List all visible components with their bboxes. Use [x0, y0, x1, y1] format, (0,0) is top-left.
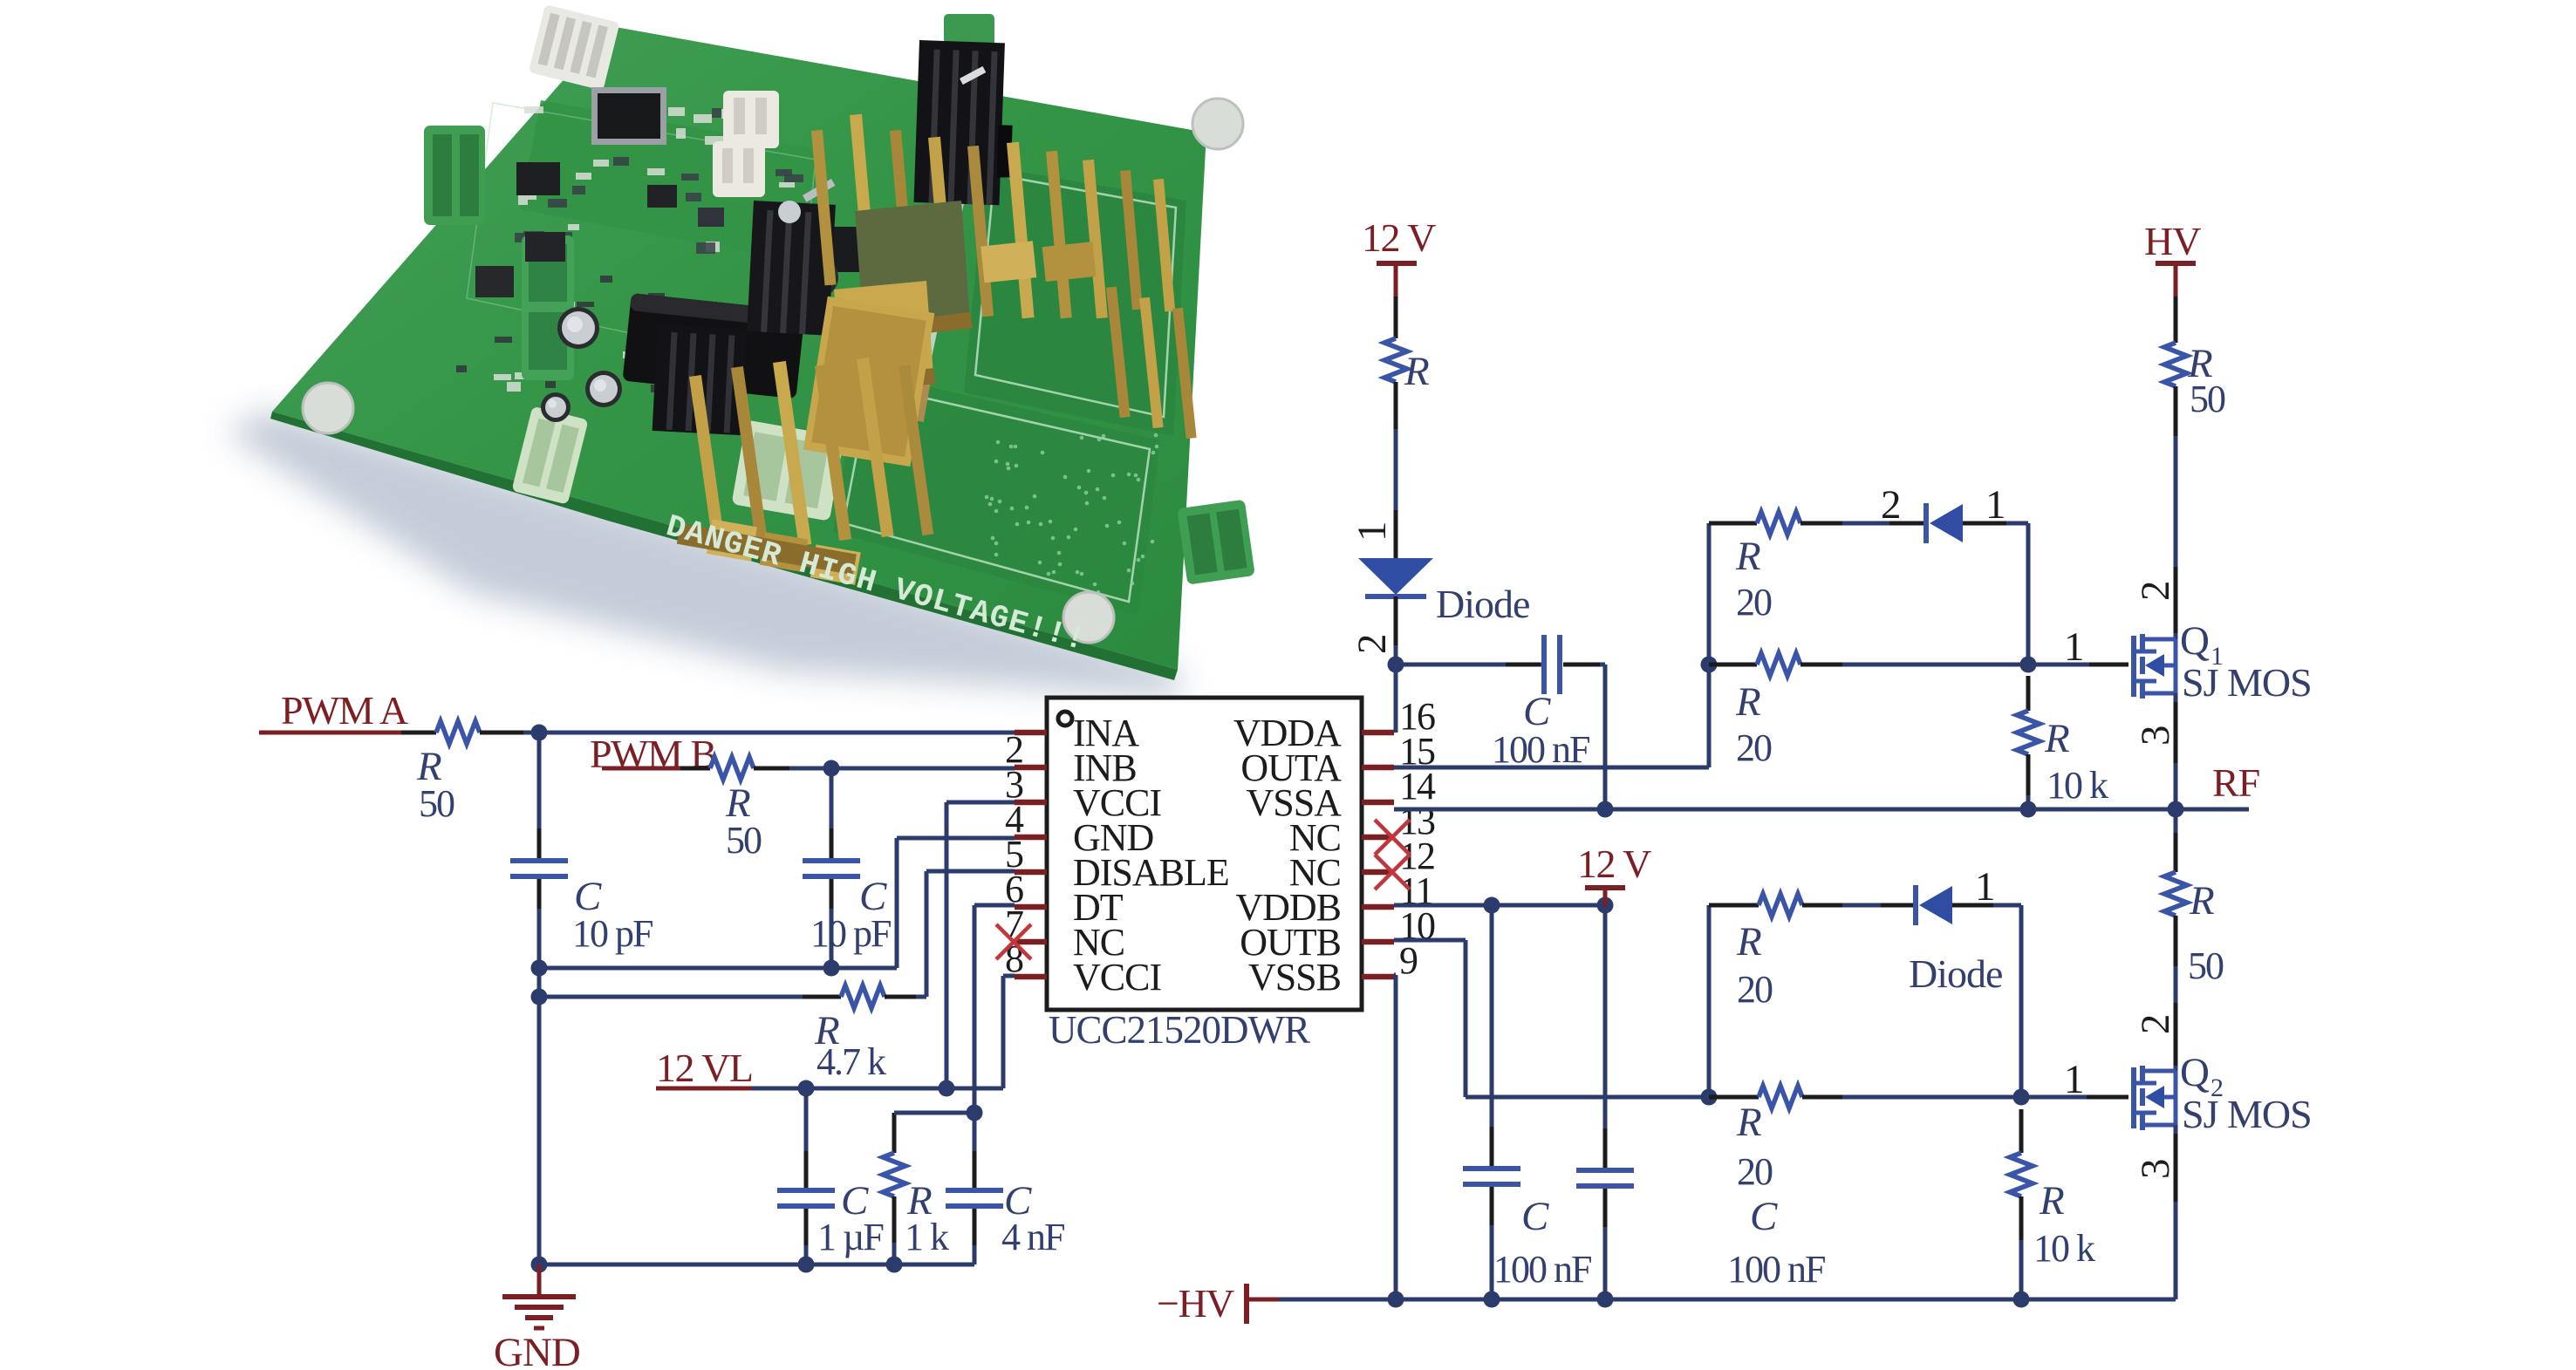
pin 13 stub (NC)	[1362, 835, 1394, 841]
wire R4.7k rail	[539, 995, 803, 999]
power -HV	[1157, 1281, 1281, 1326]
wire gate node to Q1 gate	[2028, 663, 2128, 667]
resistor R 50 (PWM B series)	[680, 757, 789, 862]
svg-text:GND: GND	[494, 1330, 580, 1370]
wire R1k to ground rail	[892, 1243, 897, 1264]
wire into pin 3	[946, 801, 1015, 805]
node -HV at VSSB	[1388, 1292, 1404, 1308]
no-connect X pin 12	[1375, 855, 1410, 889]
svg-text:1: 1	[1349, 521, 1395, 542]
svg-text:1 µF: 1 µF	[817, 1216, 883, 1258]
svg-text:3: 3	[2133, 1159, 2178, 1180]
svg-text:100 nF: 100 nF	[1492, 728, 1589, 771]
svg-text:1: 1	[1985, 482, 2006, 528]
pin 12 stub (NC)	[1362, 869, 1394, 876]
diode D2 (Q1 gate speedup)	[1889, 503, 2006, 543]
pin 5 stub (DISABLE)	[1015, 869, 1047, 876]
wire R20 to diode (upper branch Q2)	[1842, 903, 1881, 908]
svg-text:VCCI: VCCI	[1073, 956, 1161, 999]
capacitor C 100 nF (VDDB decoupling 2)	[1576, 907, 1825, 1291]
wire diode to VDDA node	[1394, 645, 1398, 665]
resistor R 20 (upper gate, Q2)	[1709, 894, 1842, 1011]
node R4.7k rail left	[531, 989, 548, 1005]
svg-text:R: R	[1735, 534, 1761, 579]
node ground junction	[531, 1257, 548, 1273]
wire VSSB down	[1394, 975, 1398, 1299]
svg-text:10 pF: 10 pF	[572, 912, 653, 955]
svg-text:50: 50	[726, 819, 762, 862]
wire corner down to gate node Q2	[2019, 905, 2024, 1097]
resistor R 50 (PWM A series)	[401, 721, 523, 825]
svg-text:Q: Q	[2180, 618, 2210, 664]
resistor R (12V feed)	[1384, 338, 1430, 429]
svg-text:3: 3	[2133, 726, 2178, 746]
wire cap to corner	[1600, 663, 1605, 667]
svg-text:10 pF: 10 pF	[810, 912, 891, 955]
svg-text:10 k: 10 k	[2046, 764, 2108, 807]
resistor R 10 k (Q2 gate-source)	[2010, 1109, 2095, 1270]
svg-text:Diode: Diode	[1909, 951, 2002, 996]
pin 16 stub (VDDA)	[1362, 730, 1394, 736]
svg-text:50: 50	[2188, 944, 2224, 987]
wire R4.7k to DISABLE riser	[916, 995, 926, 999]
node RF	[2168, 801, 2184, 818]
svg-text:Q: Q	[2180, 1050, 2210, 1095]
capacitor C 10 pF (PWM A)	[510, 828, 653, 955]
wire corner down to VSSA rail	[1603, 665, 1608, 809]
pin 14 stub (VSSA)	[1362, 800, 1394, 806]
wire VSSB from pin 9	[1394, 973, 1396, 978]
capacitor C 10 pF (PWM B)	[803, 828, 891, 955]
node Q1 gate	[2020, 657, 2037, 673]
svg-text:1: 1	[2064, 1057, 2085, 1102]
no-connect X pin 7	[996, 924, 1031, 959]
wire OUTA from pin 15	[1394, 766, 1709, 770]
capacitor C 4 nF (DT)	[946, 1151, 1064, 1258]
node DT RC junction	[967, 1105, 983, 1121]
wire PWM A net stub	[259, 731, 436, 735]
svg-text:R: R	[2189, 878, 2215, 924]
wire HV to R50	[2174, 296, 2178, 343]
wire VSSA RF rail	[1394, 808, 2249, 812]
wire OUTB to branch node	[1466, 1095, 1709, 1100]
node VSSA at R10k	[2020, 801, 2037, 818]
svg-text:1: 1	[2064, 624, 2085, 670]
pin 6 stub (DT)	[1015, 904, 1047, 910]
pin 8 stub (VCCI)	[1015, 974, 1047, 980]
wire into pin 6 DT	[974, 903, 1015, 908]
svg-text:C: C	[1521, 1194, 1549, 1239]
wire diode to corner (Q2 upper)	[1993, 903, 2021, 908]
resistor R 20 (lower gate, Q1)	[1709, 653, 1842, 769]
wire R20 to gate node Q2	[1842, 1095, 2021, 1100]
wire R10k to VSSA rail	[2026, 795, 2031, 809]
wire PWM B to pin 2	[789, 767, 1015, 771]
wire up to pin 4 GND	[895, 838, 899, 968]
svg-text:50: 50	[2190, 378, 2225, 420]
wire 12VL corner up to pin 8	[1001, 976, 1006, 1088]
svg-text:4 nF: 4 nF	[1001, 1216, 1064, 1258]
svg-text:4.7 k: 4.7 k	[817, 1040, 886, 1083]
wire node B down to C 10 pF	[830, 768, 834, 861]
wire R20 to diode (upper branch Q1)	[1842, 521, 1889, 526]
capacitor C 100 nF (bootstrap)	[1492, 635, 1600, 771]
wire into pin 4	[897, 836, 1015, 841]
wire PWM A to pin 1	[523, 731, 1015, 735]
pin 11 stub (VDDB)	[1362, 904, 1394, 910]
svg-text:HV: HV	[2144, 219, 2201, 263]
op-amp U1 UCC21520DWR body	[1047, 698, 1362, 1052]
wire R50 to Q1 drain	[2174, 436, 2178, 639]
wire 1uF to ground rail	[804, 1245, 809, 1264]
node -HV at R10k	[2013, 1292, 2030, 1308]
pin 7 stub (NC)	[1015, 939, 1047, 945]
svg-text:20: 20	[1737, 1150, 1773, 1193]
wire VDDA node to cap	[1396, 663, 1542, 667]
pin 9 stub (VSSB)	[1362, 974, 1394, 980]
wire VDDB rail	[1394, 903, 1605, 908]
power HV	[2144, 219, 2201, 307]
node VSSA at cap	[1597, 801, 1614, 818]
node PWM B junction	[823, 760, 840, 777]
wire 12V to resistor	[1394, 296, 1398, 338]
resistor R 20 (lower gate, Q2)	[1709, 1086, 1842, 1193]
node Q2 gate	[2013, 1089, 2030, 1106]
resistor R 1 k (DT)	[883, 1113, 949, 1258]
wire 100nF-1 to -HV rail	[1490, 1225, 1494, 1299]
node 12VL at 1uF	[798, 1080, 815, 1097]
svg-text:PWM A: PWM A	[281, 688, 408, 733]
svg-text:1: 1	[1975, 864, 1996, 910]
wire OUTB down	[1464, 940, 1468, 1097]
wire ground rail	[539, 1263, 974, 1267]
wire RF to R50	[2174, 809, 2178, 833]
wire -HV rail	[1279, 1298, 2176, 1302]
svg-text:R: R	[1736, 1100, 1762, 1145]
wire cap ground rail	[539, 966, 897, 971]
wire OUTB branch riser	[1707, 905, 1712, 1097]
svg-text:R: R	[1404, 349, 1430, 394]
resistor R 50 (RF to Q2 drain)	[2164, 833, 2224, 987]
node VDDA	[1388, 657, 1404, 673]
svg-text:2: 2	[2133, 1014, 2178, 1035]
svg-text:20: 20	[1736, 581, 1772, 624]
wire R10k to -HV rail	[2019, 1240, 2024, 1299]
wire OUTA riser	[1707, 523, 1712, 767]
wire PWM B net stub	[602, 767, 710, 771]
node -HV at cap1	[1484, 1292, 1500, 1308]
pin 10 stub (OUTB)	[1362, 939, 1394, 945]
node PWM A junction	[531, 725, 548, 741]
svg-text:UCC21520DWR: UCC21520DWR	[1049, 1008, 1310, 1052]
pin 4 stub (GND)	[1015, 835, 1047, 841]
wire 100nF-2 to -HV rail	[1603, 1227, 1608, 1299]
svg-text:R: R	[2044, 716, 2070, 761]
svg-text:2: 2	[1881, 482, 1902, 528]
node cap rail left	[531, 960, 548, 977]
svg-text:10 k: 10 k	[2033, 1227, 2095, 1270]
svg-text:20: 20	[1736, 726, 1772, 769]
node ground rail at 1uF	[798, 1257, 815, 1273]
wire diode to corner (Q1 upper)	[2006, 521, 2028, 526]
svg-text:1 k: 1 k	[905, 1216, 949, 1258]
power 12 V (lower)	[1577, 842, 1651, 907]
diode D3 (Q2 gate speedup)	[1881, 885, 2002, 996]
wire into pin 8	[1003, 974, 1015, 978]
svg-text:12 V: 12 V	[1577, 842, 1651, 886]
resistor R 10 k (Q1 gate-source)	[2017, 676, 2108, 807]
svg-text:2: 2	[1349, 634, 1395, 655]
pin 15 stub (OUTA)	[1362, 765, 1394, 771]
wire node A down to C 10 pF	[537, 733, 542, 861]
svg-text:VSSB: VSSB	[1248, 956, 1341, 999]
wire DT vertical	[973, 905, 977, 1190]
wire R20 to gate node Q1	[1842, 663, 2028, 667]
node ground rail at R1k	[886, 1257, 903, 1273]
node VDDB at cap1	[1484, 897, 1500, 914]
node cap rail mid	[823, 960, 840, 977]
svg-text:50: 50	[419, 782, 454, 825]
svg-text:−HV: −HV	[1157, 1281, 1234, 1326]
svg-text:SJ MOS: SJ MOS	[2182, 1092, 2312, 1136]
svg-text:C: C	[1750, 1194, 1778, 1239]
svg-text:12 V: 12 V	[1362, 215, 1436, 260]
diode D1 (12V series)	[1358, 510, 1529, 645]
capacitor C 100 nF (VDDB decoupling 1)	[1463, 905, 1591, 1291]
svg-text:R: R	[1736, 919, 1762, 964]
node 12VL at VCCI riser	[939, 1080, 955, 1097]
node OUTB branch	[1701, 1089, 1718, 1106]
wire R50 to Q2 drain	[2174, 966, 2178, 1071]
wire 12 VL rail	[752, 1087, 1003, 1091]
svg-text:100 nF: 100 nF	[1727, 1248, 1825, 1291]
node VDDB at cap2	[1597, 897, 1614, 914]
svg-text:R: R	[1735, 679, 1761, 725]
pin 2 stub (INB)	[1015, 765, 1047, 771]
wire Q1 source to RF rail	[2174, 693, 2178, 809]
node -HV at cap2	[1597, 1292, 1614, 1308]
pin 3 stub (VCCI)	[1015, 800, 1047, 806]
wire C 10 pF (B) down	[830, 909, 834, 968]
wire R to diode	[1394, 429, 1398, 558]
capacitor C 1 uF	[777, 1088, 883, 1258]
wire 4nF to ground rail end	[973, 1245, 977, 1264]
wire gate node to Q2 gate	[2021, 1095, 2128, 1100]
wire C 10 pF to ground rail	[537, 909, 542, 1264]
no-connect X pin 13	[1375, 820, 1410, 855]
wire riser to pin 3 VCCI	[945, 802, 949, 1088]
svg-text:9: 9	[1399, 939, 1418, 982]
transistor Q2 SJ MOS	[2134, 1050, 2312, 1136]
svg-text:RF: RF	[2212, 760, 2259, 805]
resistor R 20 (upper gate, Q1)	[1709, 512, 1842, 624]
resistor R 50 (HV)	[2164, 341, 2225, 436]
ground GND symbol	[494, 1264, 580, 1370]
svg-text:2: 2	[2133, 581, 2178, 602]
wire R1k top to DT vertical	[894, 1111, 974, 1115]
node OUTA branch	[1701, 657, 1718, 673]
PCB photo	[225, 4, 1255, 698]
wire VDDA node to pin 16	[1394, 665, 1398, 733]
svg-text:SJ MOS: SJ MOS	[2182, 660, 2312, 705]
wire Q2 source down	[2174, 1125, 2178, 1299]
wire corner down to gate node Q1	[2026, 523, 2031, 665]
wire OUTB from pin 10	[1394, 938, 1466, 943]
svg-text:12 VL: 12 VL	[656, 1046, 753, 1090]
pin 1 stub (INA)	[1015, 730, 1047, 736]
svg-text:R: R	[2039, 1178, 2065, 1223]
wire into pin 5	[926, 869, 1015, 874]
resistor R 4.7 k	[803, 985, 916, 1083]
svg-text:20: 20	[1737, 968, 1773, 1011]
svg-text:Diode: Diode	[1436, 582, 1529, 626]
wire 12 VL net stub	[656, 1087, 752, 1091]
wire riser to pin 5	[925, 871, 929, 997]
transistor Q1 SJ MOS	[2134, 618, 2312, 705]
svg-text:100 nF: 100 nF	[1493, 1248, 1591, 1291]
power 12 V (top)	[1362, 215, 1436, 307]
